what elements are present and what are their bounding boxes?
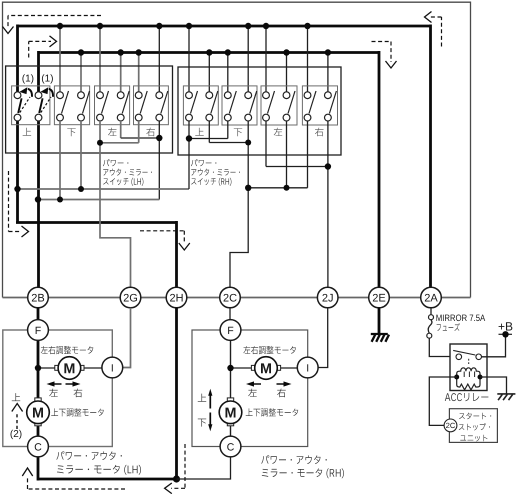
label right RH bbox=[277, 389, 286, 398]
wire bus2 down to switch LH-up-b top contact bbox=[37, 51, 40, 92]
switch unit box RH-up bbox=[183, 86, 218, 125]
label left LH bbox=[49, 389, 57, 397]
wire connector row line bbox=[3, 297, 471, 299]
node bus2 junction dots bbox=[78, 49, 331, 55]
wire fuse to relay bbox=[429, 338, 450, 356]
wire LH4b top to bus1 bbox=[158, 26, 160, 92]
terminal +B bbox=[499, 333, 513, 335]
fuse MIRROR 7.5A bbox=[429, 315, 434, 320]
wire LH4b bottom down to net B bbox=[158, 121, 160, 200]
arrow up RH motor bbox=[209, 395, 211, 409]
wire RH4b bottom down to 2J bbox=[327, 121, 329, 287]
label up LH motor bbox=[12, 393, 20, 401]
arrow dashed up LH motor bbox=[16, 412, 18, 429]
wire 2B to F thick bbox=[37, 308, 40, 321]
node bus1 junction dots bbox=[57, 23, 311, 29]
wire RH3b bottom down bbox=[286, 121, 288, 188]
arrow dashed mid-left right bbox=[9, 171, 22, 232]
relay switch contacts bbox=[456, 354, 462, 360]
wire 2H down thick to bottom rail bbox=[175, 308, 178, 479]
switch unit box LH-right bbox=[134, 86, 169, 125]
wire LH3a top to bus1 bbox=[99, 26, 101, 92]
wire RH3b top to bus2 bbox=[286, 53, 288, 93]
wire link RH1b-RH2b bbox=[209, 142, 248, 144]
wire RH3a bottom down bbox=[265, 121, 267, 167]
wire net B horizontal bbox=[38, 199, 159, 201]
switch unit box LH-left bbox=[95, 86, 130, 125]
node relay coil left bbox=[454, 375, 459, 380]
connector 2B bbox=[28, 287, 49, 308]
label power outer mirror switch RH bbox=[191, 159, 216, 166]
start-stop unit box bbox=[449, 409, 497, 443]
wire link RH1a-RH2a bbox=[189, 138, 228, 140]
switch lever closed LH1a bbox=[18, 98, 21, 113]
connector I RH bbox=[297, 357, 318, 378]
label start-stop unit bbox=[459, 413, 491, 420]
motor assembly RH box bbox=[192, 330, 308, 447]
label down RH motor bbox=[198, 419, 206, 427]
label switch RH up bbox=[195, 128, 203, 136]
wire switch LH-up-a bottom contact down bbox=[16, 121, 19, 223]
arrow dashed bottom-mid left bbox=[171, 444, 185, 488]
wire branch to M1 LH bbox=[38, 367, 55, 369]
label up-down adjust motor RH bbox=[246, 408, 298, 416]
wire M1 to I LH bbox=[84, 367, 102, 369]
switch levers open RH bbox=[191, 91, 337, 114]
wire 2C down to F RH bbox=[229, 308, 231, 321]
connector 2J bbox=[317, 287, 338, 308]
connector 2G bbox=[120, 287, 141, 308]
arrow dashed near 2E down bbox=[372, 42, 392, 63]
switch lever closed LH1b bbox=[39, 98, 42, 113]
arrow dashed switch LH right bbox=[29, 41, 51, 57]
motor assembly LH box bbox=[3, 330, 113, 447]
label up-down adjust motor LH bbox=[51, 408, 103, 416]
wire F down through motor M2 to C thick bbox=[37, 340, 40, 437]
arrow dashed top-right left bbox=[430, 17, 442, 47]
node relay coil right bbox=[478, 375, 483, 380]
arrow left LH bbox=[51, 383, 76, 385]
node M1 branch dot LH bbox=[35, 365, 41, 371]
switch actuate arrow LH1a bbox=[28, 89, 32, 97]
label switch LH up bbox=[23, 128, 31, 136]
wire thick horizontal to 2H column bbox=[16, 221, 177, 224]
wire LH2b top to bus2 bbox=[80, 53, 82, 93]
wire 2G down to I LH bbox=[123, 308, 131, 368]
motor M2 RH up-down bbox=[219, 398, 242, 426]
wire switch LH-up-b bottom contact down to 2B bbox=[37, 121, 40, 287]
label up RH motor bbox=[198, 394, 206, 402]
wire RH4b top to bus2 bbox=[327, 53, 329, 93]
wire RH2a bottom down bbox=[227, 121, 229, 139]
connector I LH bbox=[102, 357, 123, 378]
motor M1 LH left-right bbox=[55, 357, 84, 380]
arrow left RH bbox=[251, 383, 288, 385]
node bottom rail junction bbox=[173, 475, 180, 482]
label (1) LH1a bbox=[22, 74, 33, 83]
label left-right adjust motor LH bbox=[41, 346, 94, 354]
label (1) LH1b bbox=[42, 74, 53, 83]
label +B bbox=[499, 322, 513, 330]
label power outer mirror motor LH bbox=[56, 451, 121, 460]
wire RH2b top to bus1 bbox=[247, 26, 249, 92]
connector 2E bbox=[369, 287, 390, 308]
label switch RH down bbox=[234, 128, 242, 136]
connector 2C start-stop unit bbox=[444, 419, 457, 432]
wire relay coil to 2C start-stop bbox=[429, 377, 456, 425]
label right LH bbox=[74, 389, 83, 398]
wire M1 to I RH bbox=[281, 367, 298, 369]
ground symbol under 2E bbox=[371, 334, 389, 342]
label switch LH right bbox=[146, 128, 155, 137]
label ACC relay bbox=[445, 393, 489, 401]
motor M1 RH left-right bbox=[251, 357, 280, 380]
wire LH2a bottom down bbox=[59, 121, 61, 200]
wire LH3b top to bus2 bbox=[120, 53, 122, 93]
label power outer mirror motor RH bbox=[261, 455, 326, 464]
relay ACC box bbox=[450, 344, 487, 391]
wire LH4a top to bus2 bbox=[138, 53, 140, 93]
wire bus1 down to switch LH-up-a top contact bbox=[16, 25, 19, 92]
wire bus1 down to 2A bbox=[429, 25, 432, 288]
connector F LH bbox=[28, 320, 49, 341]
wire 2A to fuse bbox=[430, 308, 432, 315]
relay resistor bbox=[457, 377, 480, 390]
wire rail to C RH bbox=[177, 457, 231, 479]
wire RH1b bottom down bbox=[208, 121, 210, 143]
connector F RH bbox=[220, 320, 241, 341]
node lower junction dots bbox=[14, 135, 331, 203]
wire relay coil to ground bbox=[480, 377, 507, 394]
node M1 branch dot RH bbox=[227, 365, 233, 371]
wire LH4a bottom down bbox=[138, 121, 140, 143]
switch lever dashed alt LH1a bbox=[20, 97, 30, 113]
wire C LH down to rail bbox=[37, 457, 40, 481]
relay lever link dashed bbox=[468, 359, 470, 365]
wire +B to relay contact bbox=[482, 334, 506, 357]
wire branch to M1 RH bbox=[231, 367, 252, 369]
switch assembly LH outer box bbox=[6, 66, 173, 153]
wire RH2a top to bus2 bbox=[227, 53, 229, 93]
wire RH4a top to bus1 bbox=[307, 26, 309, 92]
wire bus2 down to 2E bbox=[378, 51, 381, 287]
connector C RH bbox=[220, 436, 241, 457]
wire bottom rail thick bbox=[38, 478, 177, 481]
connector 2H bbox=[166, 287, 187, 308]
switch unit box RH-right bbox=[302, 86, 337, 125]
wire net RH lower horizontal bbox=[248, 187, 307, 189]
switch unit box RH-left bbox=[261, 86, 297, 125]
label power outer mirror switch LH bbox=[103, 159, 128, 166]
switch contact circles LH bbox=[14, 92, 163, 121]
wire 2E to ground thick bbox=[378, 308, 381, 334]
wire LH2b bottom down bbox=[80, 121, 82, 189]
switch levers open LH bbox=[62, 91, 168, 114]
wire link LH3a-LH4a bbox=[100, 142, 139, 144]
switch actuate arrow LH1b bbox=[49, 89, 53, 97]
switch lever dashed alt LH1b bbox=[41, 97, 51, 113]
switch unit box RH-down bbox=[222, 86, 257, 125]
wire link RH3a-RH4b bbox=[266, 166, 328, 168]
arrow dashed top-left down bbox=[8, 16, 101, 29]
wire link LH3b-LH4b bbox=[121, 137, 160, 139]
wire LH3b bottom down bbox=[120, 121, 122, 138]
connector C LH bbox=[28, 436, 49, 457]
wire thick 2H column down bbox=[175, 221, 178, 287]
label left RH bbox=[248, 389, 256, 397]
label switch RH left bbox=[274, 128, 282, 136]
wire LH2a top to bus1 bbox=[59, 26, 61, 92]
ground symbol ACC relay bbox=[497, 394, 515, 400]
wire RH4a bottom down bbox=[307, 121, 309, 188]
wire F down through motor M2 to C RH bbox=[230, 340, 232, 437]
wire RH1a bottom down to net A bbox=[188, 121, 190, 189]
switch contact circles RH bbox=[186, 92, 332, 121]
wire 2J down to I RH bbox=[318, 308, 328, 368]
label MIRROR 7.5A fuse bbox=[436, 315, 485, 322]
wire feed bus 2 thick bbox=[39, 51, 380, 54]
wire perimeter loop 2B to 2A bbox=[3, 2, 471, 297]
relay coil bbox=[457, 368, 480, 377]
wire RH1a top to bus1 bbox=[188, 26, 190, 92]
arrow dashed near 2H down bbox=[140, 231, 184, 244]
label switch LH down bbox=[67, 128, 75, 136]
arrow dashed bottom-left up bbox=[28, 478, 126, 489]
label left-right adjust motor RH bbox=[243, 346, 296, 354]
switch unit box LH-down bbox=[54, 86, 89, 125]
arrow down RH motor bbox=[209, 413, 211, 426]
wire net A horizontal bbox=[18, 188, 190, 190]
switch assembly RH outer box bbox=[178, 67, 341, 155]
connector 2C bbox=[220, 287, 241, 308]
wire feed bus 1 thick bbox=[18, 25, 431, 28]
connector 2A bbox=[421, 287, 442, 308]
wire RH2b bottom down to 2C bbox=[230, 121, 248, 287]
relay lever bbox=[453, 350, 475, 355]
motor M2 LH up-down bbox=[27, 398, 50, 426]
label switch LH left bbox=[108, 128, 116, 136]
wire RH1b top to bus2 bbox=[208, 53, 210, 93]
label (2) bbox=[11, 430, 22, 439]
wire RH3a top to bus1 bbox=[265, 26, 267, 92]
label switch RH right bbox=[315, 128, 324, 137]
wire LH3a bottom down to 2G bbox=[100, 121, 131, 287]
switch unit box LH-up bbox=[12, 86, 50, 125]
